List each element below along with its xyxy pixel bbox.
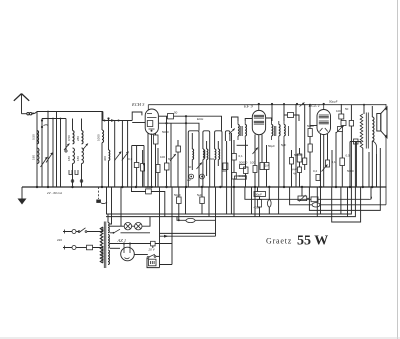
power transformer primary — [100, 227, 103, 263]
switch arrow S1 — [64, 144, 70, 151]
triode-pentode ECL1 — [317, 110, 331, 135]
wire x=231.5 — [231, 133, 233, 187]
svg-text:0,5: 0,5 — [346, 154, 351, 158]
page edge bottom — [0, 337, 400, 339]
osc coil L12 — [214, 141, 216, 149]
ECL1 pins — [321, 134, 328, 187]
wire x=178 — [177, 140, 179, 187]
filter cap box — [149, 259, 157, 266]
svg-text:4x: 4x — [293, 172, 297, 176]
svg-text:5000: 5000 — [347, 169, 354, 173]
grid stub into ECH3 — [132, 122, 145, 124]
svg-text:50μF: 50μF — [174, 193, 181, 197]
switch arrow S2 — [83, 144, 89, 151]
wire x=158 — [157, 148, 159, 187]
tone box w arrow — [302, 187, 309, 198]
wire x=142.6 — [142, 150, 144, 187]
svg-text:300: 300 — [103, 156, 107, 161]
resistor box x=131 — [132, 146, 144, 188]
antenna series capacitor — [27, 112, 37, 115]
osc arch 4 — [225, 131, 230, 141]
svg-text:50μμF: 50μμF — [329, 100, 338, 104]
antenna coil L2 — [37, 148, 39, 164]
top right component row — [340, 104, 342, 114]
resistor box R12 — [235, 176, 247, 179]
svg-text:5μF: 5μF — [281, 143, 286, 147]
wire vertical x=37 — [36, 112, 38, 188]
resistor box R3 — [156, 165, 160, 173]
line R4 tone — [332, 187, 361, 222]
svg-text:100: 100 — [160, 155, 165, 159]
wire x=296 — [295, 104, 297, 187]
osc arch 1 — [188, 131, 199, 141]
band filter coil L4 — [73, 148, 75, 164]
volume pot arrow — [322, 165, 328, 172]
svg-text:0,50: 0,50 — [32, 134, 36, 140]
wire x=299.5 boxes — [299, 148, 301, 187]
wire vertical x=42 — [41, 119, 43, 188]
osc coil L10 — [202, 141, 204, 149]
switch on B+ — [147, 254, 156, 258]
wire y=116.2 anode to osc — [159, 115, 168, 117]
contact dots — [71, 180, 74, 183]
IFT2 input coils — [0, 0, 1, 1]
osc coil L8 — [114, 121, 116, 188]
box EC — [168, 114, 174, 119]
svg-text:0,1: 0,1 — [332, 160, 337, 164]
secondary mid winding — [108, 235, 109, 249]
mains switch — [76, 231, 79, 233]
svg-text:5μF: 5μF — [197, 193, 202, 197]
wire x=284 down — [283, 140, 285, 187]
elko oval — [268, 200, 272, 207]
mains plug — [72, 230, 76, 234]
osc coil L7 — [101, 112, 103, 130]
heater line 2 — [106, 142, 355, 217]
wire x=356.4 — [355, 142, 357, 188]
cathode resistor EF9 — [253, 166, 257, 173]
EF9 pins — [255, 135, 262, 188]
vertical x=172 — [160, 187, 173, 265]
resistor box — [340, 158, 345, 166]
resistor arrow below — [259, 197, 261, 200]
output transformer primary — [363, 105, 365, 114]
wire x=350 — [349, 142, 351, 188]
wire vertical x=122.4 varcap — [121, 121, 123, 188]
pilot lamp 1 — [124, 223, 131, 230]
B+ line to right — [160, 235, 216, 237]
wire vertical x=127.6 varcap — [127, 121, 129, 188]
trimmer arrow C1 — [41, 157, 48, 167]
wire x=188.3 — [187, 141, 189, 187]
second IF coils — [0, 0, 1, 1]
svg-text:50μF: 50μF — [255, 193, 262, 197]
wire vertical x=48 — [47, 112, 49, 188]
elec cap C50b — [201, 187, 203, 197]
svg-text:50000: 50000 — [239, 174, 248, 178]
svg-text:0,2: 0,2 — [313, 169, 318, 173]
osc coil L9 — [191, 133, 193, 149]
iron core marks — [69, 170, 78, 175]
svg-text:100: 100 — [336, 109, 341, 113]
box grid cap — [316, 175, 320, 181]
B box on feed line — [350, 141, 361, 143]
line R3 — [309, 148, 380, 210]
wire link y=118.5 — [42, 118, 66, 120]
HV wires to rectifier — [110, 243, 172, 245]
wire vertical x=108.5 — [108, 118, 110, 187]
vertical x=226.6 below — [226, 187, 228, 214]
svg-text:300: 300 — [222, 169, 227, 173]
varcap arrow C2 — [46, 152, 53, 162]
svg-text:0,50: 0,50 — [67, 135, 71, 141]
output secondary — [371, 106, 373, 117]
svg-text:50μF: 50μF — [268, 144, 275, 148]
ECH3 cathode resistor — [155, 134, 157, 136]
speaker — [377, 107, 387, 138]
band filter coil L6 — [82, 148, 84, 164]
variometer core circles — [189, 174, 194, 179]
marker 4x on top line — [296, 103, 298, 105]
band filter coil L3 — [72, 119, 74, 131]
wire x=66 band switch — [65, 119, 67, 151]
wire vertical x=60.5 — [60, 119, 62, 188]
wire x=226.6 — [226, 141, 228, 187]
box right of ECL1 — [326, 160, 330, 167]
wire y=123.2 — [159, 123, 199, 131]
main ground bus — [22, 186, 387, 188]
line R2 — [290, 187, 386, 205]
svg-text:5000: 5000 — [307, 124, 314, 128]
wire x=279 down — [278, 140, 280, 187]
pilot lamp 2 — [135, 223, 142, 230]
box 200 — [223, 163, 228, 170]
feedback line R1 — [245, 187, 369, 199]
svg-text:50: 50 — [345, 107, 349, 111]
box 50000 — [232, 173, 237, 180]
wire x=336 — [335, 132, 337, 187]
svg-text:1M: 1M — [265, 164, 270, 168]
secondary heater winding — [108, 223, 109, 233]
antenna coil L1 — [37, 131, 39, 144]
cap box C30 — [349, 121, 353, 127]
svg-text:100: 100 — [250, 161, 255, 165]
band filter coil L5 — [81, 119, 83, 131]
wire vertical x=53 — [52, 119, 54, 188]
wire x=186 — [185, 116, 187, 187]
coupling cap C22 — [284, 115, 299, 121]
svg-text:20 V: 20 V — [148, 248, 156, 252]
wire link y=122 — [103, 112, 142, 121]
transformer core — [366, 113, 368, 149]
tone oval — [312, 203, 320, 207]
padder trimmer arrow — [170, 154, 176, 161]
svg-text:180: 180 — [32, 155, 36, 160]
cap box C8 — [141, 164, 145, 172]
IFT3 output coils — [0, 0, 1, 1]
cap enclosure — [147, 258, 160, 268]
B box — [311, 197, 318, 202]
wire x=245.5 down — [245, 140, 247, 187]
heater feed up — [108, 214, 112, 224]
wire x=166.5 — [166, 116, 168, 187]
verticals below bus right — [340, 187, 342, 214]
svg-text:180: 180 — [67, 156, 71, 161]
node dots input — [41, 119, 43, 121]
top wire y=111.5 antenna to band section — [37, 111, 103, 113]
speaker terminals — [385, 104, 388, 205]
box 0.1 — [232, 154, 237, 161]
triode-hexode ECH3 — [145, 109, 158, 134]
svg-text:AZ: AZ — [187, 178, 191, 182]
wire x=209.7 — [209, 141, 211, 187]
page edge right — [397, 0, 399, 339]
wire x=377.7 — [376, 154, 378, 187]
svg-text:280: 280 — [76, 136, 80, 141]
svg-text:0,1: 0,1 — [128, 157, 133, 161]
svg-text:ECL 1: ECL 1 — [308, 103, 321, 108]
svg-text:50000: 50000 — [239, 161, 248, 165]
wire x=272 top — [271, 104, 273, 121]
wire vertical x=56.5 — [56, 112, 58, 188]
core dashes — [204, 150, 206, 159]
chassis clip dashed lead — [98, 187, 100, 199]
svg-text:AZ 1: AZ 1 — [117, 238, 127, 243]
vertical x=207 from bus — [215, 187, 217, 236]
mains fuse — [76, 247, 87, 249]
wire x=332 — [331, 150, 333, 187]
lamp return wire with switch — [110, 232, 150, 234]
osc coil L11 — [206, 141, 208, 149]
box 1M — [260, 163, 264, 170]
wire x=291.5 — [291, 150, 293, 187]
osc arch 2 — [203, 131, 210, 141]
vertical x=159.5 — [159, 187, 161, 268]
svg-text:1000: 1000 — [97, 134, 101, 141]
transformer core — [104, 222, 106, 269]
elec cap C50a — [178, 187, 180, 197]
pentode EF9 — [252, 110, 265, 134]
padding coil L14 — [109, 150, 110, 160]
svg-text:EF 9: EF 9 — [243, 104, 254, 109]
agc arrow — [229, 129, 235, 135]
arrow EF9 — [253, 148, 259, 155]
svg-text:ECH: ECH — [197, 117, 203, 121]
cap box C9 — [176, 146, 181, 152]
ground arrow — [21, 187, 23, 199]
wire x=222 — [221, 141, 223, 187]
svg-text:180: 180 — [76, 156, 80, 161]
osc coil L13 — [217, 141, 219, 149]
svg-text:Graetz: Graetz — [266, 236, 292, 245]
wire x=171 — [170, 123, 172, 187]
50uF box right — [257, 187, 259, 192]
svg-text:0,1: 0,1 — [239, 154, 244, 158]
svg-text:200: 200 — [209, 157, 214, 161]
svg-text:220: 220 — [57, 238, 62, 242]
mid arrow switch — [197, 163, 203, 170]
svg-text:50: 50 — [174, 111, 178, 115]
rectifier AZ1 — [121, 247, 135, 261]
svg-text:50: 50 — [188, 165, 192, 169]
svg-text:55 W: 55 W — [297, 234, 328, 249]
IFT link wires — [232, 117, 272, 128]
svg-text:5000: 5000 — [162, 130, 169, 134]
svg-text:2V - 60 mA: 2V - 60 mA — [46, 191, 62, 195]
wire to resistor 5000 — [132, 187, 165, 217]
junction dots on bus — [36, 186, 374, 188]
svg-text:ECH 3: ECH 3 — [131, 102, 145, 107]
svg-text:μμF: μμF — [292, 167, 297, 171]
wire x=369 — [368, 152, 370, 187]
top bus wire y=104 — [148, 104, 386, 106]
return line y=233.4 — [160, 232, 216, 234]
wire x=266.5 — [266, 145, 268, 187]
svg-text:60: 60 — [168, 157, 172, 161]
antenna — [14, 94, 29, 114]
ECH3 pin wires — [147, 133, 149, 187]
heater line 1 — [106, 126, 351, 214]
B 20V marker — [151, 241, 156, 246]
curl end — [369, 197, 372, 200]
secondary HV winding — [108, 250, 109, 264]
heater stubs — [186, 187, 321, 217]
osc arch 3 — [215, 131, 222, 141]
GW box line — [177, 217, 216, 221]
wire x=234 — [233, 140, 235, 187]
grid resistor ECL1 — [310, 125, 317, 127]
wire x=304.7 — [304, 104, 306, 170]
wire x=199 arch leg — [198, 141, 200, 187]
resistor box R4 — [165, 163, 170, 170]
lamp wires — [110, 225, 125, 227]
